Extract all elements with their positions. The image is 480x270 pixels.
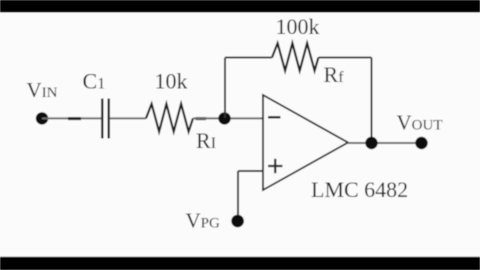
node VPG terminal (231, 215, 244, 228)
svg-text:100k: 100k (276, 14, 320, 39)
wire feedback top left (225, 57, 272, 59)
svg-text:10k: 10k (155, 69, 188, 94)
node VOUT terminal (415, 137, 427, 149)
pin plus marker (268, 159, 283, 173)
wire feedback right vertical (371, 58, 373, 144)
pin minus marker (268, 116, 281, 118)
wire feedback top right (318, 57, 371, 59)
wire feedback left vertical (224, 58, 226, 119)
resistor Rf 100k (272, 43, 318, 70)
wire C1 to RI (110, 117, 146, 119)
node VIN terminal (36, 112, 48, 124)
wire artifact dash (68, 117, 81, 120)
wire plus input vertical to VPG (237, 171, 239, 218)
resistor RI 10k (146, 104, 193, 132)
svg-text:LMC 6482: LMC 6482 (311, 177, 408, 202)
wire plus input horizontal (238, 170, 263, 172)
wire artifact dash right of RI (196, 117, 207, 120)
capacitor C1 (102, 99, 108, 139)
wire output (348, 142, 422, 144)
node junction at inverting input (218, 112, 230, 124)
wire VIN to C1 (42, 117, 101, 119)
node output junction (365, 137, 377, 149)
op-amp U1 triangle (263, 95, 348, 190)
wire RI to op-amp inverting input (193, 117, 263, 119)
